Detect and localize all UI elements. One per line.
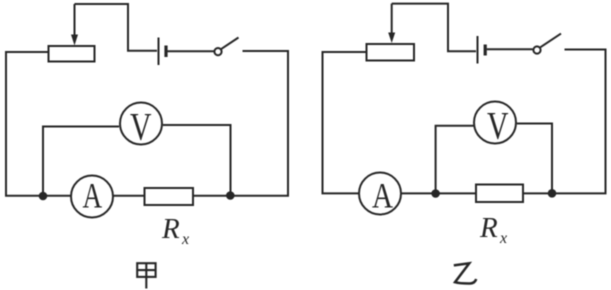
svg-text:V: V: [130, 106, 152, 149]
svg-text:R: R: [161, 213, 180, 245]
svg-text:A: A: [372, 176, 393, 216]
svg-text:x: x: [181, 231, 189, 248]
svg-text:A: A: [83, 176, 103, 216]
svg-text:V: V: [487, 105, 509, 148]
svg-text:x: x: [499, 230, 507, 247]
svg-text:R: R: [479, 212, 498, 244]
